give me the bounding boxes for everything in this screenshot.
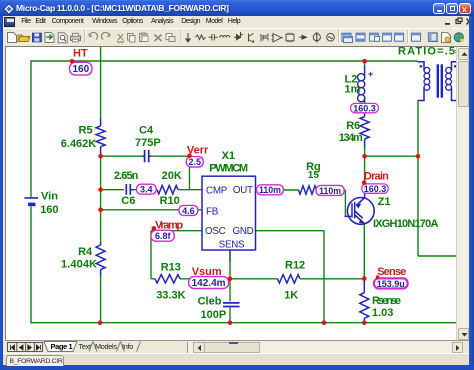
svg-text:Page 1: Page 1 <box>51 342 73 351</box>
svg-text:C6: C6 <box>121 195 135 207</box>
svg-text:GND: GND <box>232 226 253 237</box>
svg-text:PWMCM: PWMCM <box>209 163 248 175</box>
svg-text:HT: HT <box>73 47 88 59</box>
svg-text:Vin: Vin <box>41 191 58 203</box>
svg-text:FB: FB <box>206 206 219 217</box>
svg-text:2.65n: 2.65n <box>114 170 139 182</box>
svg-text:4.6: 4.6 <box>182 206 195 216</box>
svg-text:1K: 1K <box>284 290 298 302</box>
svg-text:3.4: 3.4 <box>140 185 153 195</box>
svg-text:160.3: 160.3 <box>364 184 387 194</box>
svg-text:CMP: CMP <box>206 186 228 197</box>
svg-text:Sense: Sense <box>377 266 406 278</box>
svg-text:110m: 110m <box>319 186 341 196</box>
svg-text:15: 15 <box>308 170 320 181</box>
svg-text:160.3: 160.3 <box>353 104 376 114</box>
svg-text:20K: 20K <box>162 170 182 182</box>
svg-text:C4: C4 <box>139 125 154 137</box>
svg-text:Text: Text <box>79 342 91 351</box>
svg-text:1m: 1m <box>345 83 361 95</box>
svg-text:Drain: Drain <box>364 171 389 183</box>
svg-text:R4: R4 <box>78 246 93 258</box>
svg-text:6.8f: 6.8f <box>155 231 172 241</box>
svg-text:R13: R13 <box>161 262 181 274</box>
svg-text:Cleb: Cleb <box>198 296 222 308</box>
svg-text:+: + <box>368 69 373 79</box>
svg-text:Rsense: Rsense <box>372 295 401 307</box>
svg-text:RATIO=.5: RATIO=.5 <box>398 47 455 57</box>
svg-text:134m: 134m <box>339 132 363 144</box>
svg-text:X1: X1 <box>222 150 235 162</box>
svg-text:1.03: 1.03 <box>372 307 393 319</box>
svg-text:Z1: Z1 <box>378 196 391 208</box>
svg-text:6.462K: 6.462K <box>61 138 96 150</box>
svg-text:100P: 100P <box>201 309 227 321</box>
svg-text:110m: 110m <box>259 185 281 195</box>
svg-text:OUT: OUT <box>233 185 253 196</box>
svg-text:142.4m: 142.4m <box>192 278 226 289</box>
svg-text:OSC: OSC <box>205 226 226 237</box>
svg-text:Info: Info <box>122 342 133 351</box>
svg-text:R5: R5 <box>79 125 93 137</box>
svg-text:1.404K: 1.404K <box>61 259 97 271</box>
svg-text:2.5: 2.5 <box>189 157 202 167</box>
svg-text:R10: R10 <box>160 195 180 207</box>
svg-text:160: 160 <box>40 204 58 216</box>
svg-text:775P: 775P <box>135 137 161 149</box>
svg-text:R12: R12 <box>285 259 305 271</box>
svg-text:IXGH10N170A: IXGH10N170A <box>373 218 438 230</box>
svg-text:160: 160 <box>72 64 89 75</box>
svg-text:Models: Models <box>95 342 117 351</box>
svg-text:SENS: SENS <box>219 240 245 251</box>
svg-text:R6: R6 <box>346 120 360 132</box>
svg-text:33.3K: 33.3K <box>156 290 185 302</box>
svg-text:153.9u: 153.9u <box>377 279 405 289</box>
